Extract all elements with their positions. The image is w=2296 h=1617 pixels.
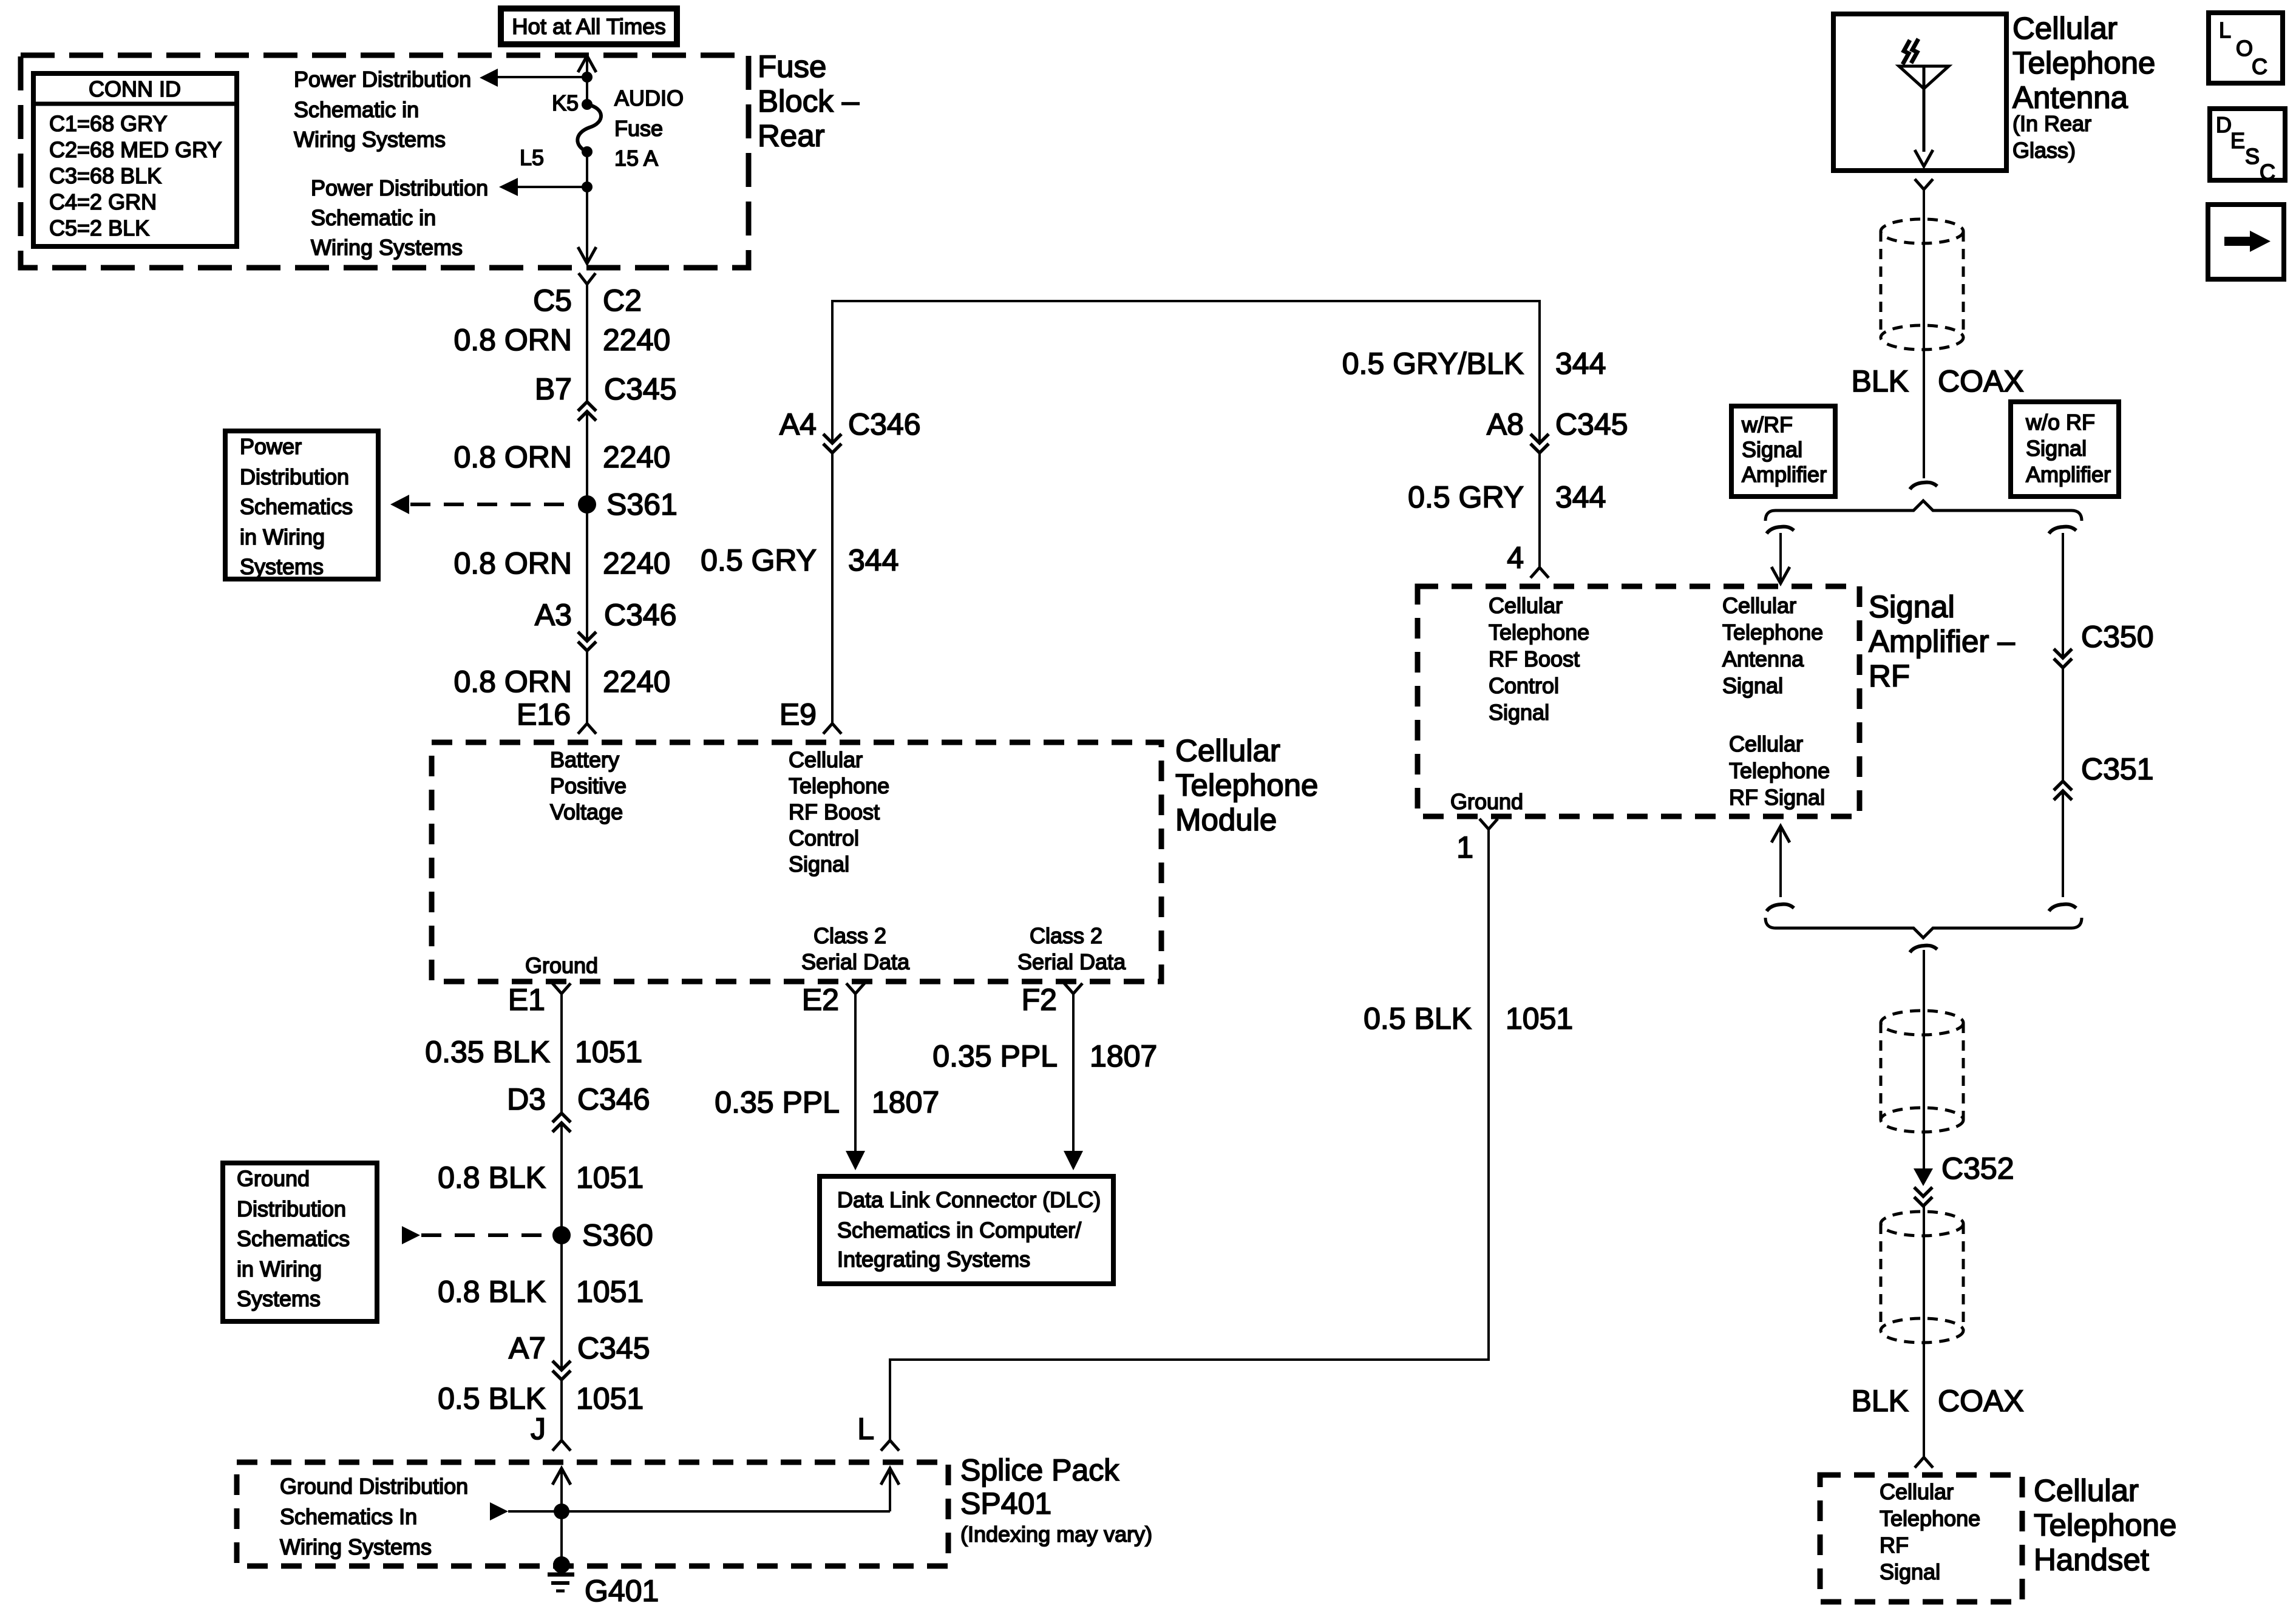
svg-text:Wiring Systems: Wiring Systems [294,127,446,152]
svg-text:C5: C5 [533,283,572,317]
svg-text:D3: D3 [507,1082,546,1116]
svg-text:Wiring Systems: Wiring Systems [280,1534,432,1559]
svg-text:0.5 GRY/BLK: 0.5 GRY/BLK [1342,347,1524,381]
svg-text:RF Boost: RF Boost [789,799,880,824]
svg-text:E1: E1 [508,983,545,1017]
pin label Cellular Telephone RF Signal (handset) [1880,1479,1980,1584]
connector C345 B7 [578,402,596,421]
svg-text:Ground: Ground [525,953,598,978]
svg-text:Schematics: Schematics [240,494,353,519]
svg-text:C345: C345 [577,1331,650,1365]
pin E1 [552,983,571,994]
label A8 | C345 [1487,407,1628,441]
label B7 | C345 [535,372,677,406]
svg-text:Cellular: Cellular [1489,593,1563,618]
svg-text:1051: 1051 [576,1275,644,1309]
label Fuse Block - Rear [758,49,860,153]
hook left branch bottom [1767,904,1794,911]
svg-text:Power Distribution: Power Distribution [311,175,488,200]
fuse AUDIO 15A symbol [577,104,601,152]
cellular telephone module dashed box [432,742,1161,981]
arrow up inside splice (J) [552,1468,571,1485]
Data Link Connector box [820,1176,1113,1284]
Ground Distribution Schematics box [223,1163,377,1321]
junction dot at fuse feed [582,72,593,83]
wire E9 vertical [831,453,834,724]
svg-text:C345: C345 [604,372,677,406]
w/o RF Signal Amplifier box [2011,402,2119,497]
svg-text:Fuse: Fuse [614,116,663,141]
svg-text:Amplifier –: Amplifier – [1869,624,2016,659]
svg-text:Cellular: Cellular [2034,1473,2139,1508]
connector C350 [2054,649,2072,668]
label Cellular Telephone Module [1175,733,1318,837]
label 0.5 BLK 1051 (amp) [1364,1002,1573,1036]
text Power Distribution Schematic 1 [294,67,471,152]
svg-text:1051: 1051 [1506,1002,1573,1036]
svg-text:Signal: Signal [1742,437,1802,462]
svg-text:CONN ID: CONN ID [89,76,181,101]
label A7 | C345 [509,1331,650,1365]
svg-text:A3: A3 [535,598,572,632]
svg-text:0.5 BLK: 0.5 BLK [1364,1002,1472,1036]
svg-text:O: O [2236,36,2253,61]
svg-text:Signal: Signal [1722,673,1783,698]
svg-text:Signal: Signal [789,852,849,876]
svg-text:C352: C352 [1941,1151,2014,1185]
hook left branch top [1767,527,1794,534]
svg-text:Splice Pack: Splice Pack [960,1453,1119,1487]
wire 0.35 BLK 1051 [560,994,563,1113]
label 0.8 ORN 2240 seg4 [453,665,670,699]
wire fuse output [586,152,588,262]
label 0.35 PPL 1807 (E2) [715,1085,939,1119]
CONN ID box [33,73,237,246]
svg-text:Hot at All Times: Hot at All Times [512,14,666,39]
svg-text:0.35 BLK: 0.35 BLK [425,1035,550,1069]
splice pack SP401 dashed box [237,1462,948,1566]
svg-text:C345: C345 [1555,407,1628,441]
svg-text:0.5 BLK: 0.5 BLK [438,1381,546,1415]
wire to power distribution arrow 2 [516,186,587,188]
svg-text:Ground: Ground [237,1166,310,1191]
coax connector cylinder 3 [1881,1212,1963,1343]
svg-text:S360: S360 [582,1218,653,1252]
svg-text:Serial Data: Serial Data [801,949,910,974]
connector C345 A8 [1530,434,1549,453]
wire RF boost control horizontal [832,301,1540,443]
svg-text:C346: C346 [577,1082,650,1116]
coax wire from antenna [1923,189,1925,478]
cellular telephone antenna box [1833,14,2006,171]
label A3 | C346 [535,598,677,632]
svg-text:Cellular: Cellular [1175,733,1280,768]
svg-text:Cellular: Cellular [789,747,863,772]
svg-text:344: 344 [1555,347,1606,381]
svg-text:Cellular: Cellular [1880,1479,1954,1504]
svg-text:Telephone: Telephone [1175,768,1318,802]
wire to power distribution arrow 1 [497,76,587,78]
svg-text:344: 344 [848,543,898,577]
pin label Cellular Telephone RF Signal (amp) [1729,731,1830,810]
cellular telephone handset dashed box [1820,1475,2022,1602]
svg-text:Signal: Signal [1869,589,1955,624]
label BLK COAX (bottom) [1851,1384,2023,1418]
wire 0.8 ORN 2240 seg2 [586,413,588,641]
svg-text:Control: Control [1489,673,1559,698]
arrow from Ground Distribution box [402,1226,420,1244]
svg-text:RF: RF [1869,659,1910,693]
splice internal bus wire [508,1510,890,1513]
wire 0.5 GRY 344 to amp [1538,453,1541,568]
label Splice Pack SP401 [960,1453,1152,1547]
pin label Cellular Telephone RF Boost Control Signal (module) [789,747,889,876]
svg-text:J: J [531,1412,546,1446]
svg-text:S: S [2245,144,2260,169]
svg-text:0.8 ORN: 0.8 ORN [453,546,572,580]
svg-text:C351: C351 [2081,752,2154,786]
svg-text:Telephone: Telephone [1880,1506,1980,1531]
hook below joining brace [1910,946,1937,952]
dashed leader to Power Distribution Schematics box [410,503,577,506]
splice S360 [552,1226,571,1244]
svg-text:C3=68 BLK: C3=68 BLK [49,163,161,188]
svg-text:Cellular: Cellular [1722,593,1796,618]
connector C346 D3 [552,1113,571,1132]
pin label Class 2 Serial Data (F2) [1017,923,1126,974]
svg-text:in Wiring: in Wiring [237,1256,322,1281]
connector C346 A3 [578,632,596,651]
svg-text:SP401: SP401 [960,1486,1051,1520]
svg-text:G401: G401 [585,1574,659,1608]
ground G401 [553,1556,570,1573]
svg-text:C: C [2252,54,2267,79]
label Cellular Telephone Antenna [2012,11,2155,163]
coax connector cylinder 2 [1881,1011,1963,1132]
svg-text:RF: RF [1880,1533,1909,1558]
node L5 [582,146,593,157]
LOC box [2209,13,2283,83]
pin J [552,1440,571,1451]
wire 0.8 ORN 2240 seg1 [586,284,588,402]
arrow into amp (antenna signal) [1771,567,1790,583]
wire antenna signal into amp [1779,533,1782,581]
svg-text:0.8 BLK: 0.8 BLK [438,1275,546,1309]
arrow right inside splice [490,1502,508,1520]
connector C346 A4 [823,434,841,453]
svg-text:Telephone: Telephone [1729,758,1830,783]
svg-text:BLK: BLK [1851,1384,1909,1418]
svg-text:Schematics in Computer/: Schematics in Computer/ [837,1218,1081,1242]
svg-text:Schematics: Schematics [237,1226,350,1251]
pin below antenna box [1915,179,1933,189]
pin E16 [578,724,596,734]
svg-text:1: 1 [1456,830,1473,864]
arrow out of amp (RF signal) [1771,826,1790,842]
svg-text:344: 344 [1555,480,1606,514]
label 0.35 BLK 1051 [425,1035,642,1069]
svg-text:Antenna: Antenna [2012,80,2128,115]
svg-text:Distribution: Distribution [240,464,349,489]
brace joining coax paths [1765,918,2082,938]
svg-text:Handset: Handset [2034,1542,2149,1577]
svg-text:Schematics In: Schematics In [280,1504,417,1529]
pin into handset [1915,1457,1933,1468]
svg-text:C2=68 MED GRY: C2=68 MED GRY [49,137,222,162]
wire fuse feed [586,58,588,103]
svg-text:Class 2: Class 2 [813,923,886,948]
svg-text:C5=2 BLK: C5=2 BLK [49,215,149,240]
svg-text:Schematic in: Schematic in [294,97,419,122]
svg-text:Power: Power [240,434,302,459]
svg-text:Positive: Positive [550,773,627,798]
svg-text:Cellular: Cellular [2012,11,2118,46]
svg-text:in Wiring: in Wiring [240,524,325,549]
svg-text:1051: 1051 [576,1381,644,1415]
svg-text:B7: B7 [535,372,572,406]
pin label Class 2 Serial Data (E2) [801,923,910,974]
pin E2 [846,983,864,994]
splice S361 [578,495,596,514]
svg-text:Serial Data: Serial Data [1017,949,1126,974]
svg-text:Block –: Block – [758,84,860,118]
svg-text:RF Boost: RF Boost [1489,646,1580,671]
connector C345 A7 [552,1361,571,1380]
svg-text:2240: 2240 [603,546,670,580]
label 0.8 ORN 2240 seg2 [453,440,670,474]
wire J inside splice [560,1468,563,1565]
forward arrow box [2208,205,2284,279]
svg-text:AUDIO: AUDIO [614,86,684,110]
signal amplifier RF dashed box [1418,586,1860,816]
pin label Cellular Telephone Antenna Signal [1722,593,1823,698]
svg-text:D: D [2216,112,2232,137]
svg-text:Wiring Systems: Wiring Systems [311,235,463,260]
node K5 [582,99,593,110]
svg-text:Glass): Glass) [2012,138,2076,163]
svg-text:(Indexing may vary): (Indexing may vary) [960,1522,1152,1547]
svg-text:E16: E16 [517,697,571,731]
svg-text:A4: A4 [779,407,817,441]
arrow down exiting fuse block [578,247,596,263]
junction dot splice bus [554,1503,569,1519]
svg-text:Telephone: Telephone [1489,620,1589,645]
svg-text:1051: 1051 [576,1161,644,1195]
w/RF Signal Amplifier box [1731,406,1835,497]
label 0.8 BLK 1051 seg1 [438,1161,644,1195]
connector C5/C2 pin symbol [579,273,596,284]
svg-text:4: 4 [1507,541,1524,575]
svg-text:1807: 1807 [1090,1039,1157,1073]
svg-text:0.35 PPL: 0.35 PPL [932,1039,1058,1073]
svg-text:L: L [2219,18,2231,42]
svg-text:L5: L5 [520,145,544,170]
arrow to Power Distribution Schematics box [390,495,409,514]
svg-text:Control: Control [789,825,859,850]
svg-text:0.8 ORN: 0.8 ORN [453,665,572,699]
hook right branch bottom [2049,904,2076,911]
svg-text:Telephone: Telephone [789,773,889,798]
svg-text:0.5 GRY: 0.5 GRY [1408,480,1524,514]
svg-text:(In Rear: (In Rear [2012,111,2091,136]
coax end hook [1910,483,1937,489]
pin E9 [823,724,841,734]
svg-text:Signal: Signal [2026,436,2087,461]
svg-text:K5: K5 [552,90,579,115]
svg-text:1051: 1051 [575,1035,642,1069]
svg-text:C4=2 GRN: C4=2 GRN [49,189,157,214]
svg-text:Signal: Signal [1489,700,1549,725]
svg-text:0.35 PPL: 0.35 PPL [715,1085,840,1119]
coax wire seg2 to handset [1923,1206,1925,1457]
DESC box [2210,109,2285,185]
pin 4 [1530,568,1549,578]
antenna symbol [1899,39,1949,166]
wire 0.5 BLK 1051 to splice [560,1380,563,1440]
wire 0.8 BLK 1051 seg1 [560,1123,563,1369]
svg-text:Ground Distribution: Ground Distribution [280,1474,468,1499]
svg-text:C1=68 GRY: C1=68 GRY [49,111,167,136]
svg-text:2240: 2240 [603,665,670,699]
svg-text:2240: 2240 [603,323,670,357]
svg-text:Power Distribution: Power Distribution [294,67,471,92]
pin L [881,1440,899,1451]
brace splitting coax paths [1765,501,2082,521]
svg-text:0.5 GRY: 0.5 GRY [701,543,817,577]
svg-text:Rear: Rear [758,118,825,153]
label A4 | C346 [779,407,921,441]
wire RF signal from amp [1779,826,1782,897]
svg-text:Systems: Systems [237,1286,321,1311]
svg-text:S361: S361 [606,487,678,521]
label Signal Amplifier - RF [1869,589,2016,693]
svg-text:L: L [857,1412,874,1446]
label 0.35 PPL 1807 (F2) [932,1039,1157,1073]
svg-text:Telephone: Telephone [2034,1508,2176,1542]
pin F2 [1064,983,1082,994]
wire L inside splice [889,1468,891,1511]
pin 1 [1479,819,1498,829]
arrow F2 to DLC [1064,1151,1083,1170]
arrow to Power Distribution 1 [480,69,498,87]
junction dot fuse output [582,181,593,192]
svg-text:Distribution: Distribution [237,1196,346,1221]
svg-text:Amplifier: Amplifier [2026,462,2111,487]
arrow E2 to DLC [846,1151,865,1170]
svg-text:E: E [2230,128,2245,153]
svg-text:2240: 2240 [603,440,670,474]
svg-text:w/RF: w/RF [1741,412,1793,437]
svg-text:E9: E9 [779,697,817,731]
svg-text:F2: F2 [1022,983,1057,1017]
svg-text:Telephone: Telephone [1722,620,1823,645]
svg-text:Antenna: Antenna [1722,646,1804,671]
wire w/o RF branch seg1 [2062,533,2064,658]
wire 0.8 ORN 2240 seg4 [586,651,588,724]
label D3 | C346 [507,1082,650,1116]
connector C351 [2054,781,2072,800]
svg-text:C: C [2260,160,2275,185]
coax connector cylinder 1 [1881,219,1963,350]
label AUDIO Fuse 15 A [614,86,684,171]
svg-text:Systems: Systems [240,554,324,579]
Power Distribution Schematics box [225,431,378,579]
Hot at All Times box [501,8,677,44]
wire w/o RF branch seg3 [2062,792,2064,897]
svg-text:Data Link Connector (DLC): Data Link Connector (DLC) [837,1187,1101,1212]
wire 0.35 PPL 1807 (F2) [1072,994,1075,1153]
label 0.5 BLK 1051 (J) [438,1381,644,1415]
pin label Battery Positive Voltage [550,747,627,824]
label 0.5 GRY 344 (A8) [1408,480,1606,514]
svg-text:Module: Module [1175,802,1277,837]
svg-text:0.8 BLK: 0.8 BLK [438,1161,546,1195]
svg-text:Telephone: Telephone [2012,46,2155,80]
svg-text:BLK: BLK [1851,364,1909,398]
svg-text:A8: A8 [1487,407,1524,441]
svg-text:C346: C346 [604,598,677,632]
svg-text:15 A: 15 A [614,146,658,171]
arrow up inside splice (L) [881,1468,899,1485]
label 0.5 GRY/BLK 344 [1342,347,1606,381]
svg-text:Amplifier: Amplifier [1742,462,1827,487]
label 0.8 ORN 2240 seg3 [453,546,670,580]
label 0.8 ORN 2240 seg1 [453,323,670,357]
dashed leader from Ground Distribution box [421,1233,551,1237]
svg-text:E2: E2 [802,983,839,1017]
arrow up to Hot at All Times [578,56,596,72]
label 0.8 BLK 1051 seg2 [438,1275,644,1309]
wire 0.35 PPL 1807 (E2) [854,994,857,1153]
svg-text:Signal: Signal [1880,1559,1940,1584]
hook right branch top [2049,527,2076,534]
svg-text:C2: C2 [603,283,642,317]
fuse block rear dashed box [21,55,749,268]
pin label Cellular Telephone RF Boost Control Signal (amp) [1489,593,1589,725]
label 0.5 GRY 344 (E9) [701,543,898,577]
svg-text:A7: A7 [509,1331,546,1365]
svg-text:Integrating Systems: Integrating Systems [837,1247,1030,1272]
svg-text:0.8 ORN: 0.8 ORN [453,440,572,474]
label Cellular Telephone Handset [2034,1473,2176,1577]
svg-text:w/o RF: w/o RF [2025,410,2095,435]
text Power Distribution Schematic 2 [311,175,488,260]
svg-text:Schematic in: Schematic in [311,205,436,230]
svg-text:RF Signal: RF Signal [1729,785,1825,810]
svg-text:Voltage: Voltage [550,799,623,824]
svg-text:C346: C346 [848,407,921,441]
svg-text:0.8 ORN: 0.8 ORN [453,323,572,357]
coax wire to handset [1923,950,1925,1168]
svg-text:Class 2: Class 2 [1030,923,1102,948]
svg-text:COAX: COAX [1938,1384,2024,1418]
svg-text:Battery: Battery [550,747,619,772]
svg-text:COAX: COAX [1938,364,2024,398]
svg-text:C350: C350 [2081,620,2154,654]
label C5 | C2 [533,283,642,317]
svg-text:Fuse: Fuse [758,49,826,84]
connector C352 [1914,1168,1933,1186]
wire w/o RF branch seg2 [2062,668,2064,781]
svg-text:Cellular: Cellular [1729,731,1803,756]
label BLK COAX (top) [1851,364,2023,398]
svg-text:1807: 1807 [872,1085,939,1119]
svg-text:Ground: Ground [1450,789,1523,814]
wire 0.5 BLK 1051 from amp ground [890,829,1489,1440]
text Ground Distribution Schematics In Wiring Systems [280,1474,468,1559]
arrow to Power Distribution 2 [499,178,518,196]
